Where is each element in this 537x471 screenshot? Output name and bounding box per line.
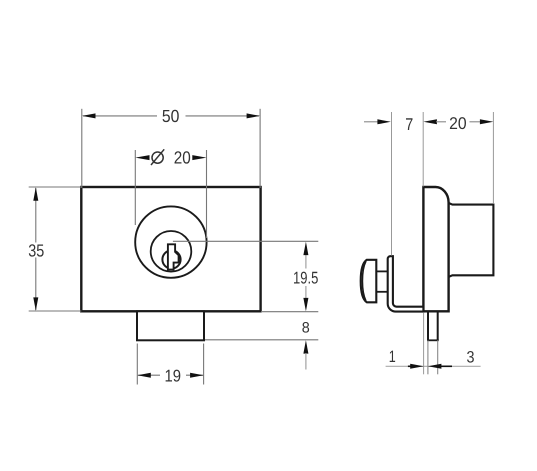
dimension 50 arrow right bbox=[247, 113, 261, 118]
dimension 50 ext line left bbox=[81, 109, 83, 188]
body bottom ext line right bbox=[261, 311, 318, 313]
dimension 7 ext line (bracket face) bbox=[391, 112, 393, 256]
mounting bracket side view bbox=[388, 256, 424, 311]
cylinder outer circle bbox=[135, 206, 206, 277]
screw tail bottom cap bbox=[427, 339, 439, 341]
dimension 1-3 base line bbox=[386, 365, 481, 367]
dimension phi20 ext line left bbox=[134, 150, 136, 225]
dimension 35 line bbox=[35, 188, 37, 310]
knob inner arc bbox=[362, 261, 366, 301]
dimension 7 arrow bbox=[377, 119, 391, 124]
dimension 19.5 line bbox=[305, 253, 307, 299]
dimension phi20 diameter symbol bbox=[151, 149, 164, 165]
dimension 1 ext line (body edge) bbox=[423, 313, 425, 374]
svg-text:20: 20 bbox=[449, 114, 467, 133]
cylinder inner circle bbox=[151, 231, 192, 272]
dimension 35 ext line top bbox=[29, 186, 82, 188]
bottom tab front view bbox=[137, 311, 204, 340]
keyhole slot bbox=[168, 244, 179, 269]
knob stem top line bbox=[376, 270, 387, 272]
screw tail left line bbox=[427, 312, 429, 341]
dimension 19 ext line right bbox=[203, 344, 205, 385]
screw tail right line bbox=[437, 312, 439, 341]
dimension 20 ext line (body face) bbox=[422, 112, 424, 187]
svg-text:50: 50 bbox=[162, 106, 180, 126]
dimension 19.5 ext line from circle center bbox=[173, 240, 318, 242]
svg-text:20: 20 bbox=[174, 148, 191, 168]
dimension phi20 arrow left bbox=[135, 155, 149, 160]
keyhole circle bbox=[162, 250, 180, 268]
dimension phi20 ext line right bbox=[206, 150, 208, 238]
svg-text:8: 8 bbox=[302, 319, 310, 336]
cylinder side view bbox=[449, 203, 494, 277]
dimension 19.5 arrow bottom bbox=[303, 298, 308, 312]
dimension 3 arrow bbox=[428, 364, 452, 369]
svg-text:19: 19 bbox=[165, 367, 182, 386]
svg-text:35: 35 bbox=[28, 240, 44, 260]
tab bottom ext line right bbox=[205, 339, 318, 341]
dimension 35 arrow bottom bbox=[33, 297, 38, 311]
svg-text:7: 7 bbox=[405, 115, 413, 134]
svg-text:1: 1 bbox=[389, 348, 396, 366]
dimension 20 arrow left bbox=[423, 119, 437, 124]
dimension phi20 arrow right bbox=[192, 155, 206, 160]
knob stem bottom line bbox=[376, 291, 387, 293]
dimension 35 ext line bottom bbox=[29, 310, 82, 312]
dimension 8 arrow tail bbox=[305, 353, 307, 370]
dimension 20 arrow right bbox=[480, 119, 494, 124]
dimension 20 line right bbox=[470, 121, 483, 123]
dimension 3 ext line left (tail edge) bbox=[427, 340, 429, 374]
dimension 8 arrow below bbox=[303, 340, 308, 354]
dimension 20 line left bbox=[436, 121, 446, 123]
dimension 50 line bbox=[83, 115, 259, 117]
knob outline side view bbox=[361, 260, 377, 303]
dimension 50 ext line right bbox=[259, 109, 261, 188]
dimension 19 arrow left bbox=[137, 373, 151, 378]
svg-text:3: 3 bbox=[467, 348, 475, 366]
dimension 3 ext line right (tail edge) bbox=[437, 340, 439, 374]
dimension 19 line bbox=[138, 374, 203, 376]
dimension 1 arrow bbox=[408, 364, 424, 369]
dimension 19.5 arrow top bbox=[303, 242, 308, 256]
dimension 20 ext line right (cylinder face) bbox=[492, 112, 494, 203]
lock body side view bbox=[423, 187, 448, 311]
dimension 19 ext line left bbox=[136, 344, 138, 385]
dimension 7 tail line left bbox=[364, 121, 380, 123]
dimension 50 arrow left bbox=[82, 113, 96, 118]
dimension 35 arrow top bbox=[33, 187, 38, 201]
lock body front view bbox=[81, 187, 260, 311]
svg-text:19.5: 19.5 bbox=[293, 269, 318, 288]
dimension 19 arrow right bbox=[190, 373, 204, 378]
